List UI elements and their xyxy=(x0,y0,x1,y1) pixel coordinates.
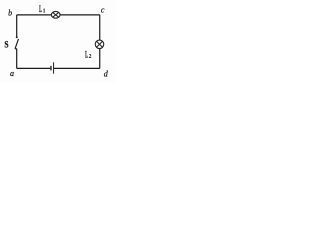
switch upper contact dot xyxy=(16,36,18,38)
svg-text:a: a xyxy=(10,69,14,78)
lamp L2 xyxy=(95,40,104,49)
svg-text:b: b xyxy=(8,9,12,18)
wire right upper vertical (c to L2) xyxy=(99,15,101,40)
lamp label L1 xyxy=(39,4,46,15)
svg-text:L: L xyxy=(85,50,88,60)
wire top-right horizontal (L1 to c) xyxy=(60,14,100,16)
wire bottom-left horizontal (battery to a) xyxy=(17,67,51,69)
battery negative plate (short thick) xyxy=(50,66,52,71)
svg-text:S: S xyxy=(4,41,8,51)
svg-text:L: L xyxy=(39,4,42,14)
wire top-left horizontal (b to L1) xyxy=(17,14,52,16)
wire left lower vertical (a to switch) xyxy=(16,49,18,69)
battery positive plate (long thin) xyxy=(53,62,55,73)
lamp label L2 xyxy=(85,50,92,60)
switch lower contact dot xyxy=(15,48,17,50)
svg-text:d: d xyxy=(104,70,109,79)
wire right lower vertical (L2 to d) xyxy=(99,48,101,68)
lamp L1 xyxy=(51,11,60,18)
svg-text:1: 1 xyxy=(43,9,46,15)
switch S blade xyxy=(15,39,19,49)
wire left upper vertical (switch to b) xyxy=(16,15,18,38)
svg-text:c: c xyxy=(101,5,105,14)
svg-text:2: 2 xyxy=(89,54,92,60)
wire bottom-right horizontal (d to battery) xyxy=(54,67,100,69)
